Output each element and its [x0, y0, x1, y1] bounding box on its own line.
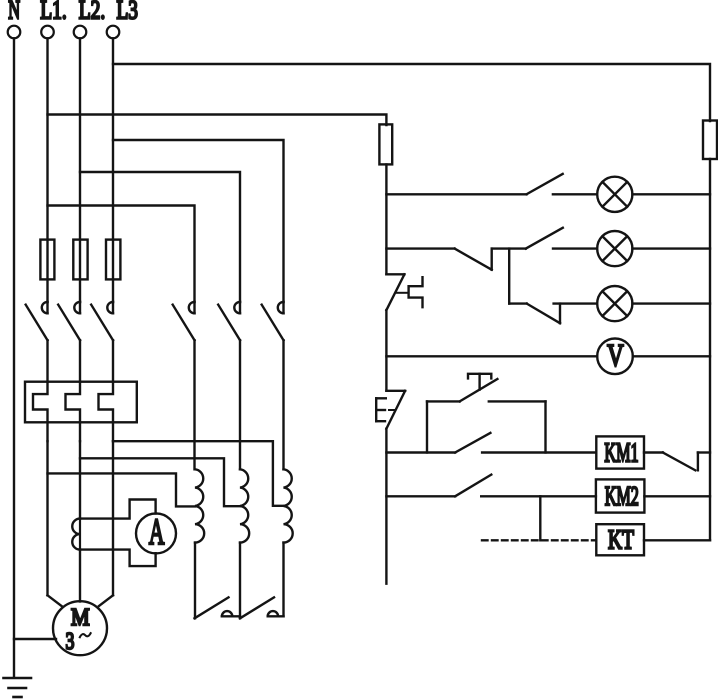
- wire ammeter top loop: [80, 500, 156, 519]
- terminal L1: [41, 26, 54, 39]
- svg-text:KM2: KM2: [605, 481, 639, 511]
- contact QF pole 1: [26, 302, 48, 382]
- contact KM1 self-hold NO: [455, 433, 490, 453]
- coil KM2: [596, 479, 645, 512]
- lamp HL3: [597, 286, 632, 321]
- wire right control rail: [709, 159, 711, 540]
- wire L1 vertical: [46, 38, 48, 302]
- fuse FU2: [73, 240, 87, 280]
- svg-text:KT: KT: [608, 525, 634, 555]
- motor M 3~: [53, 601, 107, 655]
- contact KM2 pole 2: [218, 302, 240, 469]
- star contact 2: [240, 597, 284, 618]
- svg-text:A: A: [149, 511, 165, 552]
- wire L1 motor entry diagonal: [48, 595, 62, 606]
- wire L2 vertical: [79, 38, 81, 302]
- wire link KM2 rung to KT rung: [539, 496, 541, 540]
- FR heater phase 2: [66, 382, 81, 442]
- autotransformer coil 3: [284, 469, 293, 542]
- wire tap L2 to coil 2: [80, 458, 240, 506]
- svg-text:M: M: [71, 604, 90, 631]
- coil KM1: [596, 436, 644, 468]
- node L1 label: [40, 0, 67, 24]
- wire L2 down to motor: [79, 550, 81, 602]
- svg-text:KM1: KM1: [604, 437, 638, 467]
- contact QF pole 2: [58, 302, 80, 382]
- switch contact lamp 1: [527, 174, 563, 194]
- wire N vertical: [13, 38, 15, 676]
- node L3 label: [117, 0, 138, 24]
- switch contact lamp 3 closed blade: [527, 304, 560, 324]
- start button SB branch: [427, 374, 546, 402]
- lamp rung 1 wires: [386, 193, 526, 195]
- node L2 label: [79, 0, 106, 24]
- fuse FU4 control left: [379, 124, 392, 164]
- autotransformer coil 1: [195, 469, 204, 542]
- svg-text:L3: L3: [117, 0, 138, 24]
- wire coil 3 down: [282, 543, 284, 617]
- lamp rung 2 wires: [386, 247, 454, 249]
- node N label: [8, 0, 20, 24]
- switch SA2 NC contact with E actuator: [376, 391, 405, 429]
- wire N to motor: [14, 638, 56, 640]
- svg-text:L1.: L1.: [40, 0, 67, 24]
- transfer switch linkage bar: [508, 249, 510, 304]
- wire tap L1 to coil 1: [48, 473, 196, 506]
- lamp HL2: [597, 231, 632, 266]
- wire button branch right vertical: [544, 401, 546, 452]
- fuse FU5 control right: [703, 121, 717, 160]
- switch contact lamp 2: [526, 228, 563, 249]
- wire tap L3 to coil 3: [113, 441, 284, 506]
- wire coil 1 down: [194, 543, 196, 619]
- lamp HL1: [597, 177, 632, 212]
- svg-text:N: N: [8, 0, 20, 24]
- contact KM2 interlock NC: [644, 453, 710, 471]
- wire button branch left vertical: [426, 401, 428, 452]
- autotransformer coil 2: [240, 469, 249, 542]
- contact KM2 pole 3: [262, 302, 284, 469]
- ammeter PA: [136, 513, 176, 553]
- KM1 rung wires: [386, 451, 455, 453]
- wire L3 motor entry diagonal: [99, 595, 113, 606]
- current transformer TA on L2: [72, 519, 80, 550]
- wire L3 vertical: [112, 38, 114, 302]
- KM2 rung wires: [386, 495, 455, 497]
- contact KM2 pole 1: [173, 302, 195, 469]
- switch SA1 NC contact with detent: [386, 274, 422, 310]
- wire coil 2 down: [239, 543, 241, 619]
- wire left rail lower: [385, 429, 387, 584]
- voltmeter PV: [597, 339, 633, 375]
- wire left rail middle: [385, 310, 387, 391]
- wire left control rail upper: [385, 165, 387, 275]
- wire L3 to right rail: [113, 64, 710, 121]
- wire L1 to control fuse: [48, 115, 387, 126]
- FR heater phase 3: [99, 382, 114, 442]
- star contact 1: [195, 597, 241, 618]
- FR heater phase 1: [33, 382, 48, 442]
- svg-text:3: 3: [65, 628, 74, 655]
- wire ammeter bottom loop: [80, 550, 156, 567]
- dashed wire to KT: [482, 539, 596, 541]
- contact KM1 NO on KM2 rung: [455, 475, 491, 497]
- wire L3 to branch pole 3: [113, 140, 284, 302]
- voltmeter rung wire: [386, 355, 597, 357]
- wire L1 phase down to motor: [46, 441, 48, 595]
- fuse FU3: [106, 240, 120, 280]
- terminal N: [8, 26, 21, 39]
- transfer switch blade rung 2: [455, 249, 526, 270]
- wire L1 to branch pole 1: [48, 206, 195, 303]
- lamp rung 3 wires: [509, 302, 527, 304]
- svg-text:L2.: L2.: [79, 0, 106, 24]
- contact QF pole 3: [91, 302, 113, 382]
- thermal overload relay FR box: [25, 382, 137, 423]
- terminal L2: [74, 26, 87, 39]
- fuse FU1: [40, 240, 54, 280]
- wire L2 phase down: [79, 441, 81, 518]
- ground: [4, 678, 32, 697]
- wire L3 phase down to motor: [112, 441, 114, 595]
- svg-text:V: V: [607, 339, 624, 375]
- wire L2 to branch pole 2: [80, 172, 240, 302]
- coil KT: [596, 524, 644, 555]
- terminal L3: [107, 26, 120, 39]
